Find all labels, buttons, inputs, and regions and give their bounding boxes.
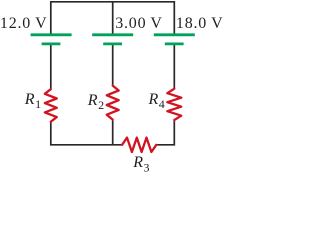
svg-text:R3: R3 xyxy=(132,154,149,174)
wire battery V3 to resistor R4 xyxy=(173,45,175,89)
wire R4 bottom stub and bottom-right segment to R3 xyxy=(156,120,174,145)
svg-text:R1: R1 xyxy=(24,91,41,111)
wire battery V2 to resistor R2 xyxy=(112,45,114,86)
resistor R3 zigzag xyxy=(122,138,156,152)
wire top rail with corners down to batteries V1 and V3 xyxy=(51,2,175,34)
wire R1 bottom stub and bottom-left segment to R3 xyxy=(51,122,122,145)
wire R2 bottom stub xyxy=(112,120,114,145)
svg-text:R4: R4 xyxy=(148,91,165,111)
battery V1 short plate xyxy=(42,43,61,46)
resistor R4 zigzag xyxy=(167,89,181,120)
battery V1 long plate xyxy=(31,33,72,36)
battery V2 short plate xyxy=(103,43,122,46)
wire battery V1 to resistor R1 xyxy=(50,45,52,90)
battery V3 long plate xyxy=(154,33,195,36)
wire battery V2 top lead xyxy=(112,2,114,34)
svg-text:3.00 V: 3.00 V xyxy=(115,15,163,32)
resistor R2 zigzag xyxy=(107,86,119,120)
svg-text:R2: R2 xyxy=(87,92,104,112)
svg-text:18.0 V: 18.0 V xyxy=(176,15,224,32)
svg-text:12.0 V: 12.0 V xyxy=(0,15,47,32)
battery V2 long plate xyxy=(92,33,133,36)
resistor R1 zigzag xyxy=(45,89,57,122)
battery V3 short plate xyxy=(165,43,184,46)
